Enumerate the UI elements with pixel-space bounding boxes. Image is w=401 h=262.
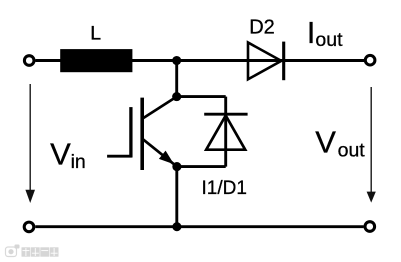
- svg-text:L: L: [90, 23, 101, 45]
- svg-text:out: out: [315, 29, 343, 51]
- svg-text:in: in: [71, 151, 86, 173]
- svg-text:D2: D2: [249, 17, 275, 39]
- svg-text:V: V: [315, 125, 336, 160]
- svg-text:I: I: [307, 15, 316, 50]
- svg-text:out: out: [338, 139, 366, 161]
- svg-text:I1/D1: I1/D1: [202, 178, 247, 199]
- svg-text:V: V: [50, 137, 71, 172]
